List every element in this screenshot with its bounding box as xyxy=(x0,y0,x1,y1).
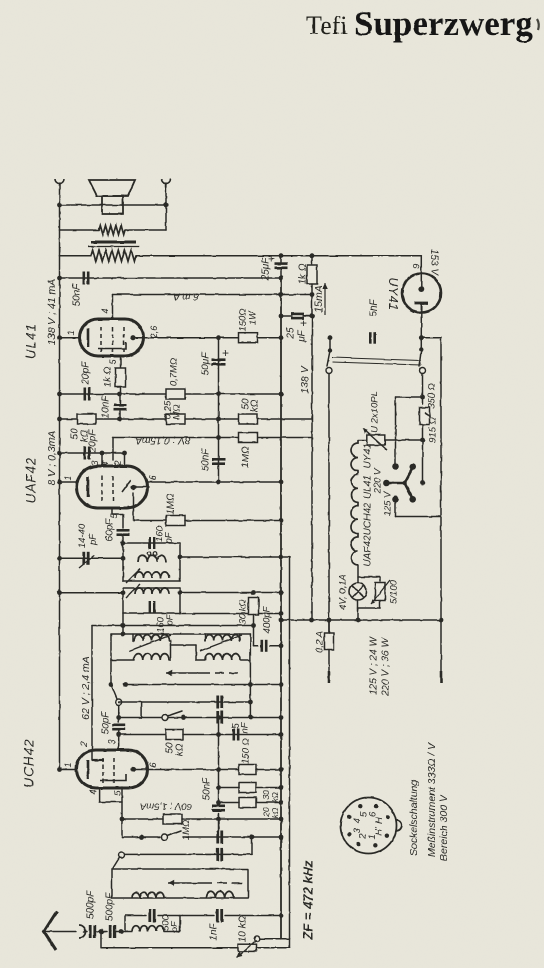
capacitor osc padder B xyxy=(218,848,222,861)
resistor 1k (rectifier filter) xyxy=(307,265,317,284)
capacitor 50nF tone xyxy=(84,272,88,285)
wire IFT1 to rail xyxy=(180,556,289,558)
capacitor 50uF cathode xyxy=(212,360,226,365)
wire antenna gnd drop xyxy=(100,932,102,948)
wire secondary left h xyxy=(60,229,100,231)
wire divider line y419 xyxy=(60,418,312,420)
wire switch L stub xyxy=(329,338,331,350)
wire y516 to mains xyxy=(396,516,442,518)
wire heater to lamp xyxy=(357,565,359,583)
wire 60pF bottom xyxy=(122,537,124,543)
svg-text:153 V: 153 V xyxy=(429,249,440,276)
capacitor 160pF IFT1 top xyxy=(150,537,154,549)
node switch R top xyxy=(419,335,424,340)
switch mains L arm xyxy=(327,351,330,367)
bandfilter coil L4 xyxy=(205,654,240,660)
svg-text:kΩ: kΩ xyxy=(250,399,261,412)
antenna symbol xyxy=(44,911,57,950)
oscillator dashed arrow xyxy=(208,882,242,884)
socket pin 4 xyxy=(347,815,351,819)
wire conn to cap xyxy=(84,931,87,933)
wire bf link drop xyxy=(195,645,197,660)
5/100 arrow xyxy=(371,580,390,604)
bandfilter coil L1 xyxy=(134,635,169,641)
node lamp y620 xyxy=(356,618,361,623)
wire 30k right xyxy=(256,787,281,789)
wire bf L2 rise xyxy=(170,645,172,660)
bandfilter arrow L1 xyxy=(129,635,171,651)
wire IFT2 left to AVC xyxy=(122,613,124,626)
svg-text:UY41: UY41 xyxy=(363,443,374,468)
svg-text:Sockelschaltung: Sockelschaltung xyxy=(408,780,420,857)
UAF42 grid b xyxy=(112,476,114,502)
wire UL41 anode lead pin1 xyxy=(60,337,80,339)
svg-text:50nF: 50nF xyxy=(202,777,213,801)
potentiometer 10k arrow xyxy=(237,940,257,958)
wire 500pF3 left drop xyxy=(124,916,126,932)
resistor 350/915 dropper xyxy=(420,408,430,425)
svg-text:915 Ω: 915 Ω xyxy=(428,417,439,443)
switch mains R contact xyxy=(420,368,426,374)
wire 1k bottom lead xyxy=(311,284,313,295)
wire UL41 cathode line xyxy=(133,337,281,339)
node 30k rail xyxy=(279,785,284,790)
IFT1 tuning arrow xyxy=(126,569,140,583)
urdox arrow xyxy=(363,429,387,451)
wire 50nF bottom xyxy=(218,813,220,819)
switch S2 arm xyxy=(168,711,183,716)
wire switch R stub xyxy=(420,338,422,349)
wire 10nF top xyxy=(119,394,121,403)
wire dropper bottom xyxy=(422,425,424,483)
node y837 corner xyxy=(250,835,255,840)
node cathode rail UCH42 xyxy=(279,767,284,772)
svg-text:kΩ: kΩ xyxy=(270,791,280,802)
mains lead 2 end xyxy=(440,671,443,683)
svg-text:125 V ; 24 W: 125 V ; 24 W xyxy=(369,636,380,695)
wire shunt bottom2 xyxy=(358,607,380,609)
node y684 x250 xyxy=(248,682,253,687)
svg-text:3: 3 xyxy=(90,460,100,465)
wire secondary right h xyxy=(125,229,166,231)
wire 1nF line left xyxy=(180,915,214,917)
node y394 x218 xyxy=(216,392,221,397)
svg-text:2,6: 2,6 xyxy=(149,326,159,340)
wire pot terminal to loop xyxy=(260,938,290,940)
svg-text:kΩ: kΩ xyxy=(175,743,186,756)
oscillator arrow head xyxy=(168,882,208,884)
node cathode rail xyxy=(279,335,284,340)
bandfilter arrow L3 xyxy=(200,635,242,651)
wire 400pF right xyxy=(270,645,281,647)
socket pin H xyxy=(385,815,389,819)
svg-text:138 V ; 41 mA: 138 V ; 41 mA xyxy=(46,279,58,346)
wire lamp to y620 xyxy=(357,600,359,620)
wire 125V stud down xyxy=(395,499,397,516)
svg-text:4: 4 xyxy=(100,308,110,313)
wire UY41 pin6 lead xyxy=(420,256,422,286)
node IFT1 right xyxy=(178,555,183,560)
capacitor 50nF cathode xyxy=(212,806,225,810)
svg-text:138 V: 138 V xyxy=(299,365,311,393)
socket pin 6 xyxy=(374,804,378,808)
tube socket diagram Sockelschaltung xyxy=(341,798,397,854)
wire anode rail 138V xyxy=(59,256,61,770)
svg-text:60V ; 1,5mA: 60V ; 1,5mA xyxy=(140,801,192,812)
wire bf L1 stub xyxy=(132,634,134,641)
wire IFT2 out xyxy=(180,592,281,594)
wire 60pF top xyxy=(122,514,124,528)
switch S4 contact xyxy=(119,852,125,858)
svg-text:5nF: 5nF xyxy=(369,298,380,316)
wire y702 line xyxy=(119,701,251,703)
wire bandfilter top line xyxy=(111,633,250,635)
svg-text:500pF: 500pF xyxy=(105,892,116,921)
capacitor 20pF coupling xyxy=(85,447,89,460)
wire 25uF-2 lead xyxy=(281,315,292,317)
wire 5nF line xyxy=(183,734,281,736)
wire speaker right lead xyxy=(165,183,167,205)
node y557 rail xyxy=(279,555,284,560)
wire secondary left xyxy=(59,205,61,230)
svg-text:6: 6 xyxy=(148,475,158,480)
wire bottom right xyxy=(257,947,290,949)
wire 1M osc left xyxy=(122,818,163,820)
node 138V top xyxy=(310,292,315,297)
node 25uF-2 138V xyxy=(310,314,315,319)
output transformer Tr core xyxy=(91,241,136,244)
svg-text:25: 25 xyxy=(286,327,297,340)
urdox resistor U 2x10PL xyxy=(367,435,385,445)
wire IFT2 top xyxy=(123,587,180,589)
resistor 5/100 xyxy=(375,583,385,601)
svg-text:H: H xyxy=(374,817,385,824)
node grid return rail xyxy=(57,590,62,595)
node x250 y702 xyxy=(248,700,253,705)
node pin3 y734 xyxy=(116,732,121,737)
node y620 138V rail xyxy=(309,618,314,623)
socket pin 5 xyxy=(358,804,362,808)
node pin5 1M row xyxy=(120,817,125,822)
IFT2 tuning arrow xyxy=(126,584,140,598)
capacitor 1nF xyxy=(217,909,221,922)
svg-text:8V ; 0,15mA: 8V ; 0,15mA xyxy=(135,435,190,446)
IF tube UAF42 envelope xyxy=(77,466,148,508)
wire shunt bottom xyxy=(379,601,381,609)
wire y717 line xyxy=(119,717,281,719)
node trimmer IFT1 xyxy=(121,556,126,561)
svg-text:4V, 0,1A: 4V, 0,1A xyxy=(338,574,349,610)
svg-text:1: 1 xyxy=(66,330,76,335)
capacitor 20pF feedback xyxy=(85,388,89,401)
oscillator coil L6 xyxy=(206,891,234,898)
wire UY41 bottom lead xyxy=(420,303,422,338)
node y482 rail xyxy=(279,480,284,485)
svg-text:500pF: 500pF xyxy=(86,890,97,919)
output tube UL41 envelope xyxy=(80,319,144,356)
resistor 50k osc box xyxy=(166,730,183,740)
wire 25uF-1 bottom lead xyxy=(280,268,282,278)
node fuse y620 xyxy=(327,618,332,623)
svg-text:1: 1 xyxy=(63,762,73,767)
capacitor bandset 2 xyxy=(218,711,222,724)
UL41 anode plate xyxy=(87,328,90,347)
wire 500pF3 right drop xyxy=(179,916,181,932)
trimmer capacitor 14-40pF xyxy=(84,552,88,565)
switch mains R arm xyxy=(419,350,421,367)
wire UAF42 pin1 lead xyxy=(60,481,77,483)
node trimmer rail xyxy=(57,556,62,561)
dial lamp 4V 0.1A xyxy=(350,583,367,600)
svg-text:kΩ: kΩ xyxy=(270,807,280,818)
node pin1 rail xyxy=(57,480,62,485)
wire UL41 screen pin4 lead xyxy=(112,295,114,320)
svg-text:60pF: 60pF xyxy=(105,518,116,542)
wire mains lead 2 xyxy=(440,338,442,672)
node grid junction xyxy=(117,392,122,397)
switch S3 arm xyxy=(167,831,181,836)
IFT1 secondary coil xyxy=(138,555,166,562)
mixer tube UCH42 envelope xyxy=(77,750,148,788)
UCH42 cathode xyxy=(100,774,126,781)
wire pin3 lead xyxy=(101,453,103,466)
wire inside to pin6 xyxy=(134,486,148,488)
resistor 0.25M xyxy=(166,414,185,424)
wire B+ line 153V xyxy=(136,255,421,257)
wire 20k right xyxy=(256,802,281,804)
switch gang link xyxy=(332,358,421,361)
svg-text:UL41: UL41 xyxy=(363,475,374,499)
wire pin5 jog xyxy=(112,513,123,515)
UCH42 cathode node xyxy=(130,767,135,772)
wire speaker line xyxy=(60,204,167,206)
UL41 grid 3 xyxy=(100,327,102,352)
antenna connector arc xyxy=(79,925,86,938)
IFT1 coupling dots xyxy=(147,552,151,556)
wire y620 to fuse xyxy=(328,620,330,633)
IFT1 primary coil xyxy=(135,572,169,578)
wire anode to 1M xyxy=(133,493,135,521)
wire dropper top xyxy=(422,374,424,405)
capacitor osc padder A xyxy=(218,831,222,844)
node dropper end xyxy=(420,480,425,485)
UL41 cathode xyxy=(98,342,126,349)
wire IFT2 bottom xyxy=(123,612,180,614)
node 20k left xyxy=(216,800,221,805)
capacitor 400pF xyxy=(262,640,266,652)
wire chassis rail xyxy=(280,278,282,939)
scan mark top right xyxy=(537,19,539,30)
wire IFT2 left xyxy=(122,588,124,613)
wire branch left xyxy=(396,396,423,398)
wire 30k down xyxy=(253,615,255,646)
svg-text:UCH42: UCH42 xyxy=(363,502,374,535)
node y592 rail xyxy=(279,590,284,595)
svg-text:1: 1 xyxy=(63,475,73,480)
wire bf right vertical xyxy=(249,634,251,685)
wire pin2 lead xyxy=(124,453,126,466)
selector stud a xyxy=(409,464,416,471)
wire x141 drop xyxy=(141,702,143,718)
svg-text:1MΩ: 1MΩ xyxy=(166,493,177,515)
node cap2 coil xyxy=(119,929,124,934)
dropper tap arrow xyxy=(425,413,430,418)
node y620 rail xyxy=(279,618,284,623)
wire UAF42 cathode line xyxy=(147,481,281,483)
svg-text:+: + xyxy=(300,316,307,330)
wire bf L4 feed xyxy=(196,659,205,661)
svg-text:3: 3 xyxy=(107,739,117,744)
wire antenna lead xyxy=(44,931,76,933)
node 1M row rail xyxy=(279,817,284,822)
wire AVC line xyxy=(92,625,254,627)
wire IFT2 bottom to rail xyxy=(180,613,281,615)
svg-text:2: 2 xyxy=(113,460,123,466)
capacitor 500pF antenna 1 xyxy=(90,925,95,938)
svg-text:2: 2 xyxy=(79,741,89,747)
node pin2 lead xyxy=(122,451,127,456)
wire 1k top lead xyxy=(311,256,313,266)
node grid return IFT2 xyxy=(121,590,126,595)
capacitor 10nF xyxy=(114,405,127,409)
UCH42 grid a xyxy=(102,758,104,783)
output transformer Tr secondary winding xyxy=(99,226,125,235)
bandfilter arrow head xyxy=(166,672,207,674)
capacitor bandset 1 xyxy=(218,696,222,709)
capacitor 60pF xyxy=(117,530,130,534)
socket pin H’ xyxy=(385,833,389,837)
wire x218 column lower xyxy=(218,718,220,770)
wire y338 to mains loop xyxy=(421,337,441,339)
wire 500pF3 right xyxy=(158,915,180,917)
node switch L pivot xyxy=(328,348,332,352)
socket pin 1 xyxy=(373,843,377,847)
wire 25uF-1 top lead xyxy=(280,256,282,262)
node switch L top xyxy=(328,335,333,340)
svg-text:5/100: 5/100 xyxy=(389,579,400,603)
capacitor 25uF electrolytic 1 xyxy=(275,264,288,268)
svg-text:4: 4 xyxy=(100,461,110,466)
node grid line rail xyxy=(57,392,62,397)
wire 1M osc right xyxy=(182,818,281,820)
node y394 rail xyxy=(279,392,284,397)
label 15mA with arrow xyxy=(313,283,328,315)
wire UL41 grid line xyxy=(60,393,282,395)
node x250 y717 xyxy=(248,715,253,720)
svg-text:nF: nF xyxy=(240,721,251,733)
capacitor 500pF osc xyxy=(150,909,154,922)
wire UAF42 pin4 lead xyxy=(112,438,114,461)
svg-text:1MΩ: 1MΩ xyxy=(241,446,252,468)
node pin3 y717 xyxy=(116,715,121,720)
wire bf L2 right xyxy=(169,659,171,661)
UL41 cathode node xyxy=(130,335,135,340)
wire UCH42 pin2 grid lead xyxy=(91,626,93,761)
node 25uF-2 rail xyxy=(279,314,284,319)
resistor 1M xyxy=(239,433,258,443)
svg-text:6: 6 xyxy=(148,762,158,767)
svg-text:Superzwerg: Superzwerg xyxy=(354,4,533,43)
node B+ / 1k xyxy=(310,253,315,258)
node y684 start xyxy=(123,682,128,687)
rectifier tube UY41 envelope xyxy=(402,274,441,313)
node 20k rail xyxy=(279,800,284,805)
wire cap2 to coil xyxy=(116,931,132,933)
node cathode / 50uF xyxy=(216,335,221,340)
svg-text:62 V ; 2,4 mA: 62 V ; 2,4 mA xyxy=(80,656,92,720)
svg-text:350 Ω: 350 Ω xyxy=(427,383,438,409)
node IFT2 right xyxy=(178,590,183,595)
resistor 30k xyxy=(249,598,259,615)
svg-text:Meßinstrument 333Ω / V: Meßinstrument 333Ω / V xyxy=(426,742,438,857)
wire y620 line xyxy=(281,619,441,621)
resistor 1M oscillator xyxy=(163,814,182,824)
node y684 rail xyxy=(279,682,284,687)
speaker terminal hook right xyxy=(162,179,171,184)
node urdox junction xyxy=(420,438,425,443)
wire 1M left xyxy=(134,520,167,522)
wire 150ohm to rail xyxy=(256,769,281,771)
wire grid return line xyxy=(60,592,124,594)
svg-text:150 Ω: 150 Ω xyxy=(241,738,252,764)
node UCH42 pin1 rail xyxy=(57,767,62,772)
node 1M row cap stub xyxy=(216,817,221,822)
svg-text:50pF: 50pF xyxy=(101,711,112,735)
node switch R pivot xyxy=(419,347,423,351)
svg-text:8 V ; 0,3mA: 8 V ; 0,3mA xyxy=(46,431,58,486)
wire 1nF line right xyxy=(225,915,281,917)
wire 20k left xyxy=(219,802,240,804)
node 30k left xyxy=(216,785,221,790)
node AVC x123 xyxy=(121,623,126,628)
wire IFT2 right xyxy=(179,588,181,613)
node speaker left xyxy=(57,203,62,208)
node pin3 lead xyxy=(100,451,105,456)
svg-text:+: + xyxy=(268,253,274,265)
resistor 1k grid stopper xyxy=(116,368,126,387)
wire UAF42 grid line xyxy=(60,452,125,454)
mains lead 1 end xyxy=(328,671,331,683)
node y837 rail xyxy=(279,835,284,840)
wire 1M right xyxy=(185,520,281,522)
loudspeaker LS cone xyxy=(89,180,135,196)
svg-text:1k Ω: 1k Ω xyxy=(298,263,309,284)
selector stud 125V xyxy=(392,496,399,503)
wire UCH42 cathode line xyxy=(133,769,239,771)
node x218 y717 xyxy=(216,715,221,720)
wire cap stub down xyxy=(218,819,220,831)
wire IFT1 left xyxy=(122,543,124,581)
wire UCH42 pin1 lead xyxy=(60,769,78,771)
capacitor 50pF xyxy=(112,725,125,729)
UAF42 grid a xyxy=(101,476,103,502)
wire UCH42 pin5 column xyxy=(121,787,123,837)
wire bf row2 feed xyxy=(111,659,134,661)
node S3 left xyxy=(139,835,144,840)
wire 500pF3 left xyxy=(125,915,146,917)
wire mains lead 1 lower xyxy=(328,650,330,672)
node y717 rail xyxy=(279,715,284,720)
svg-text:220 V: 220 V xyxy=(373,467,384,494)
wire bf L1 drop xyxy=(170,641,172,645)
bandfilter coil L2 xyxy=(134,654,169,660)
UY41 anode bar xyxy=(415,302,429,305)
UAF42 anode plate xyxy=(87,477,90,497)
wire x250 loop xyxy=(249,685,251,718)
UY41 cathode dot xyxy=(418,286,424,292)
node y419 rail xyxy=(57,417,62,422)
svg-text:20pF: 20pF xyxy=(88,429,99,454)
